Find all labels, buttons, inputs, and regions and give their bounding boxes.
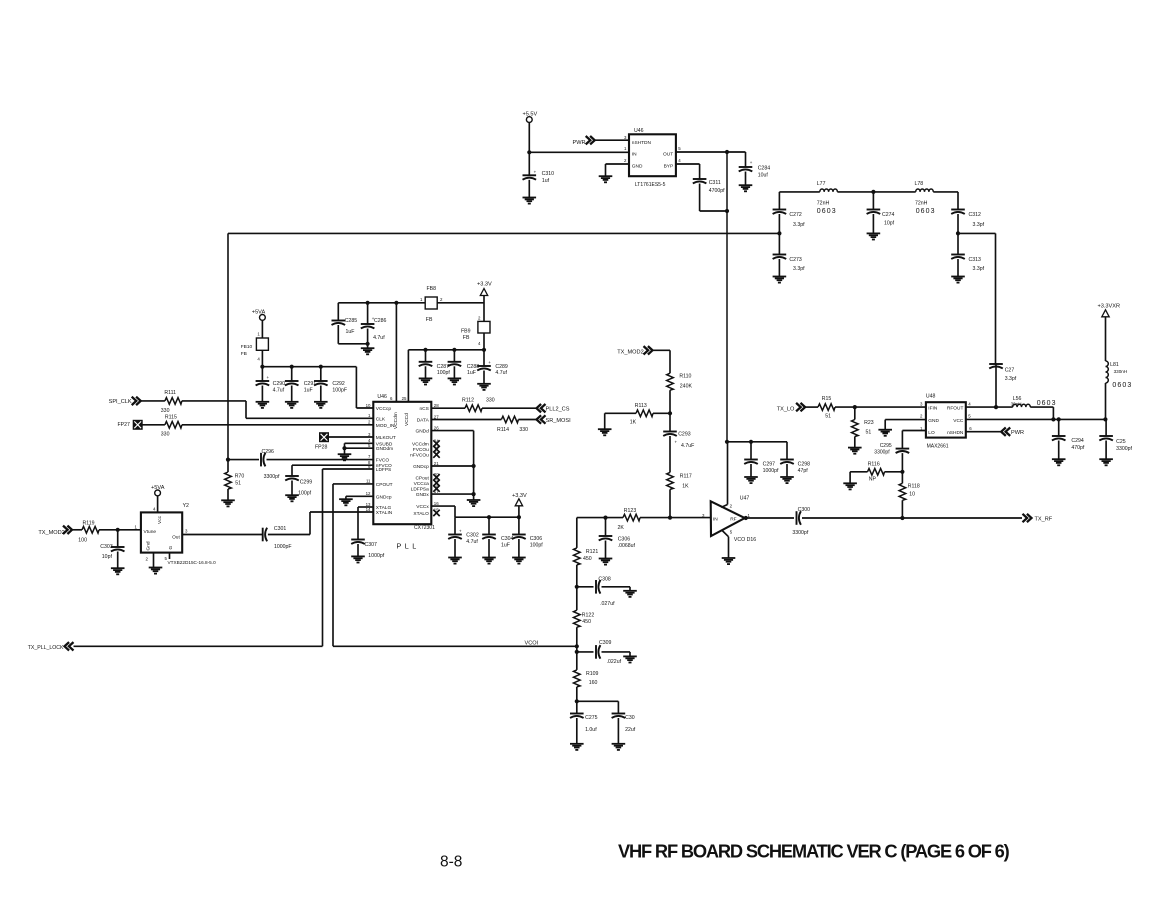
svg-text:NP: NP [869,477,877,483]
svg-text:330: 330 [161,408,170,414]
svg-text:51: 51 [825,414,831,420]
wire [726,152,728,442]
no-connect pin [433,474,439,480]
svg-text:3300pf: 3300pf [1116,446,1132,452]
wire [576,718,578,744]
svg-text:G: G [168,546,174,550]
wire [227,233,229,459]
label 0603 [1037,400,1057,407]
power +5VA [252,310,266,321]
wire [957,259,959,277]
svg-text:72nH: 72nH [915,201,928,207]
svg-text:4700pf: 4700pf [709,188,725,194]
junction [342,446,346,450]
svg-text:R121: R121 [586,549,599,555]
wire [854,407,856,448]
svg-text:R115: R115 [165,414,177,420]
inductor L81 [1106,361,1128,383]
wire [261,320,263,338]
svg-text:10: 10 [366,403,371,408]
VCO U47 [702,496,756,543]
junction [394,301,398,305]
svg-text:TX_RF: TX_RF [1035,517,1053,523]
svg-text:R122: R122 [582,613,595,619]
ground [612,744,626,750]
wire [483,333,485,350]
svg-text:+3.3V: +3.3V [477,282,492,288]
wire [333,645,577,647]
svg-text:R15: R15 [822,396,832,402]
wire [837,191,915,193]
capacitor C272 [773,210,805,228]
wire [528,180,530,198]
wire [153,553,155,568]
svg-text:C296: C296 [262,449,275,455]
svg-text:1uF: 1uF [346,329,355,335]
wire [488,517,490,557]
ground [780,477,794,483]
wire [228,459,259,461]
svg-text:330: 330 [486,398,495,404]
resistor R123 [618,508,641,531]
svg-text:C303: C303 [100,544,113,550]
resistor R115 [161,414,182,437]
ground [739,185,753,191]
inductor L77 [817,181,838,215]
svg-text:C275: C275 [585,715,598,721]
svg-text:R111: R111 [164,390,176,396]
svg-text:FB10: FB10 [241,344,253,350]
svg-text:3.3pf: 3.3pf [973,222,985,228]
wire [872,192,874,234]
wire [966,418,1106,420]
capacitor C307 [351,540,385,560]
net TX_PLL_LOCK [28,642,74,651]
svg-text:1000pf: 1000pf [763,468,779,474]
svg-text:.022uf: .022uf [607,659,622,665]
svg-text:IN: IN [632,152,637,158]
ground [111,568,125,574]
wire [407,350,409,402]
wire [995,364,997,407]
svg-text:RF: RF [730,517,736,523]
junction [575,585,579,589]
no-connect pin [433,510,439,516]
ground [149,568,163,574]
capacitor C292 [314,381,347,394]
net TX_LO [777,403,805,412]
svg-text:C273: C273 [789,257,802,263]
IC U46 LT1761ES5-5 regulator [624,128,681,188]
capacitor C298 [780,460,810,475]
svg-text:C307: C307 [365,542,378,548]
wire [529,123,629,176]
net TX_MOD2 [38,526,72,536]
wire [778,259,780,277]
junction [527,150,531,154]
resistor R109 [574,670,599,687]
no-connect pin [433,440,439,446]
svg-text:3300pf: 3300pf [792,530,808,536]
svg-text:4.7uF: 4.7uF [681,443,694,449]
svg-text:C27: C27 [1005,367,1015,373]
svg-text:330: 330 [161,432,170,438]
svg-text:R23: R23 [864,420,874,426]
svg-text:GNDcp: GNDcp [413,464,429,470]
power +3.3VXR [1098,304,1121,317]
ground [623,591,637,597]
svg-text:TX_LO: TX_LO [777,406,795,412]
wire [346,496,373,499]
resistor R114 [497,416,528,433]
capacitor C287 [419,362,451,376]
svg-text:FP28: FP28 [315,444,328,450]
net TX_MOD2 [617,346,652,355]
capacitor C291 [285,381,316,394]
wire [605,518,607,559]
svg-text:+: + [675,440,678,445]
resistor R23 [852,420,874,437]
net SPI_CLK [109,397,141,406]
wire [676,151,746,153]
svg-text:FVCOu: FVCOu [413,447,429,453]
junction [423,348,486,352]
wire [640,517,711,519]
svg-text:C284: C284 [758,166,771,172]
wire [228,232,779,234]
resistor R119 [78,520,99,543]
junction [900,516,904,520]
svg-text:C286: C286 [374,318,387,324]
net VCOI [525,640,539,646]
svg-text:GNDdm: GNDdm [376,446,393,452]
svg-text:CPout: CPout [415,475,429,481]
ground [361,348,375,354]
svg-text:+: + [750,160,753,165]
junction [668,411,672,415]
svg-text:FB: FB [463,335,470,341]
capacitor C295 [874,443,909,456]
wire [606,164,630,176]
ground [599,176,613,182]
svg-text:L81: L81 [1110,362,1119,368]
svg-text:FB: FB [241,351,247,357]
svg-text:0603: 0603 [817,208,837,215]
svg-text:10: 10 [909,492,915,498]
svg-text:+: + [267,375,270,380]
svg-text:51: 51 [235,481,241,487]
svg-text:4.7uf: 4.7uf [466,539,478,545]
ground [221,500,235,506]
svg-text:LT1761ES5-5: LT1761ES5-5 [635,182,666,188]
wire [617,718,619,744]
svg-text:.0068uf: .0068uf [618,543,636,549]
svg-text:1K: 1K [630,420,637,426]
label 0603 [1112,382,1132,389]
no-connect pin [433,446,439,452]
capacitor C296 [261,449,280,480]
wire [453,350,455,379]
svg-text:MLKOUT: MLKOUT [376,435,396,441]
svg-text:26: 26 [434,425,439,430]
ground [285,495,299,501]
svg-text:100pf: 100pf [437,370,451,376]
wire [291,481,293,496]
svg-text:R114: R114 [497,427,509,433]
wire [157,496,159,513]
wire [482,407,536,409]
test point FP27 [118,420,143,429]
svg-text:47pf: 47pf [798,468,809,474]
svg-text:nSHTDN: nSHTDN [632,140,652,146]
IC U46 CX72301 PLL [366,394,440,550]
ground [314,402,328,408]
wire [74,645,323,647]
svg-text:100: 100 [78,538,87,544]
svg-text:U46: U46 [634,128,644,134]
ferrite bead FB10 [241,332,269,362]
wire [431,407,465,409]
net TX_RF [1023,514,1053,523]
capacitor C306 [599,536,636,549]
ground [1099,459,1113,465]
svg-text:VTXB22D15C-16.8-5.0: VTXB22D15C-16.8-5.0 [168,560,217,565]
capacitor C311 [693,179,725,194]
svg-text:U48: U48 [926,394,936,400]
svg-text:C306: C306 [530,536,543,542]
ground [448,558,462,564]
svg-text:1uF: 1uF [501,543,510,549]
svg-text:1.0uf: 1.0uf [585,727,597,733]
wire [518,517,520,557]
no-connect pin [433,485,439,491]
wire [333,484,373,646]
svg-text:PWR: PWR [573,140,586,146]
wire [182,534,263,536]
capacitor C275 [570,714,598,734]
ground [523,198,537,204]
ground [570,744,584,750]
svg-text:Vcc: Vcc [157,515,163,524]
capacitor C297 [744,460,779,475]
wire [779,192,819,210]
ground [351,556,365,562]
test point FP28 [315,433,328,451]
svg-text:4.7uf: 4.7uf [273,388,285,394]
junction [871,190,875,194]
wire [518,506,520,517]
wire [1105,317,1107,361]
capacitor C303 [100,544,124,560]
wire [602,652,631,657]
svg-text:+: + [459,529,462,534]
svg-text:VCCd: VCCd [404,413,410,426]
junction [994,405,998,409]
svg-text:R119: R119 [83,520,95,526]
junction [319,365,323,369]
svg-text:C293: C293 [678,432,691,438]
capacitor C308 [596,577,615,608]
svg-text:GND: GND [632,164,643,170]
svg-text:OUT: OUT [663,152,673,158]
svg-text:0603: 0603 [916,208,936,215]
wire [958,233,996,364]
wire [328,436,373,438]
ground [482,558,496,564]
svg-text:C290: C290 [273,381,286,387]
capacitor C299 [285,476,312,497]
wire [745,152,747,185]
svg-text:LO: LO [928,430,935,436]
wire [676,164,700,179]
svg-text:450: 450 [583,556,592,562]
junction [290,365,294,369]
wire [669,390,671,431]
wire [261,350,263,381]
wire [576,565,578,610]
svg-text:VHF RF BOARD SCHEMATIC VER C (: VHF RF BOARD SCHEMATIC VER C (PAGE 6 OF … [618,841,1010,862]
svg-text:GNDcp: GNDcp [376,494,392,500]
wire [577,651,594,653]
svg-text:Vtune: Vtune [144,529,157,535]
wire [357,544,359,556]
wire [261,386,263,402]
svg-text:0603: 0603 [1112,382,1132,389]
svg-text:VCC: VCC [953,418,964,424]
wire [727,441,787,443]
junction [472,464,476,496]
svg-text:C25: C25 [1116,439,1126,445]
wire [885,420,926,430]
svg-text:R123: R123 [624,508,637,514]
label title [618,841,1010,862]
svg-text:28: 28 [434,403,439,408]
svg-text:C302: C302 [466,533,479,539]
svg-text:3.3pf: 3.3pf [793,222,805,228]
svg-text:12: 12 [366,491,371,496]
svg-text:39nH: 39nH [1011,402,1022,407]
svg-text:VCCx: VCCx [416,504,429,510]
wire [142,424,373,426]
svg-text:10pf: 10pf [884,221,895,227]
svg-text:1K: 1K [682,484,689,490]
svg-text:nCS: nCS [419,406,428,412]
svg-text:DATA: DATA [417,418,430,424]
capacitor C25 [1099,436,1132,452]
svg-text:+: + [372,316,375,321]
svg-text:C298: C298 [798,461,811,467]
ground [1052,459,1066,465]
wire [141,401,374,418]
junction [900,470,904,474]
svg-text:.027uf: .027uf [600,601,615,607]
capacitor C293 [663,432,694,450]
svg-text:LDFPS: LDFPS [376,467,391,473]
svg-text:22uf: 22uf [625,727,636,733]
svg-text:100pf: 100pf [298,491,312,497]
svg-text:+5VA: +5VA [151,485,165,491]
IC U48 MAX2661 upconverter [920,394,972,450]
svg-text:IFIN: IFIN [928,406,938,412]
wire [338,303,367,344]
svg-text:11: 11 [366,479,371,484]
svg-text:C312: C312 [969,212,982,218]
ground [448,378,462,384]
resistor R70 [225,472,245,489]
wire [595,139,629,141]
svg-text:CX72301: CX72301 [414,525,435,531]
svg-text:3300pf: 3300pf [264,474,280,480]
svg-text:+3.3V: +3.3V [512,493,527,499]
junction [575,644,579,654]
svg-text:C309: C309 [599,640,612,646]
svg-text:TX_PLL_LOCK: TX_PLL_LOCK [28,645,64,651]
wire [267,459,374,461]
svg-text:Y2: Y2 [183,503,189,509]
wire [745,517,794,519]
capacitor C305 [512,535,543,549]
junction [725,440,753,444]
ground [338,454,352,460]
svg-text:10pf: 10pf [102,554,113,560]
svg-text:R109: R109 [586,671,599,677]
wire [367,303,369,348]
svg-text:VCCdm: VCCdm [412,442,429,448]
svg-text:240K: 240K [680,384,693,390]
svg-text:+: + [534,170,537,175]
svg-text:+3.3VXR: +3.3VXR [1098,304,1121,310]
svg-text:C299: C299 [300,479,313,485]
svg-text:PLL: PLL [397,542,420,551]
wire [262,367,373,408]
svg-text:FB: FB [426,317,433,323]
wire [577,586,594,588]
capacitor C27 [989,364,1017,382]
wire [483,350,485,384]
svg-text:U46: U46 [377,394,387,400]
svg-text:100pf: 100pf [530,543,544,549]
svg-text:CPOUT: CPOUT [376,482,393,488]
svg-text:C285: C285 [345,318,358,324]
capacitor C313 [951,255,984,273]
junction [744,516,748,520]
svg-text:330: 330 [519,427,528,433]
wire [902,431,926,449]
wire [1105,383,1107,419]
wire [901,453,903,483]
resistor R122 [574,610,595,627]
ferrite bead FB9 [461,316,490,347]
ground [623,656,637,662]
ground [477,384,491,390]
svg-text:160: 160 [589,680,598,686]
svg-text:C313: C313 [969,257,982,263]
svg-text:C30: C30 [625,715,635,721]
svg-text:BYP: BYP [664,164,674,170]
wire [431,506,519,517]
svg-text:GNDd: GNDd [415,429,429,435]
capacitor C274 [867,210,895,227]
svg-text:GND: GND [928,418,939,424]
power +5.5V [523,112,538,123]
junction [1051,417,1107,421]
svg-text:2K: 2K [618,525,625,531]
svg-text:FVCO: FVCO [376,457,390,463]
wire [320,367,322,402]
resistor R111 [161,390,182,414]
svg-text:XTALO: XTALO [413,511,429,517]
wire [358,507,373,540]
